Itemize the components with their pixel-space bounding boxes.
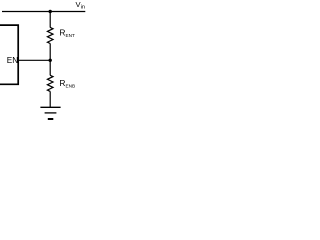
resistor RENB [47,75,53,91]
ground bar 1 [40,106,60,108]
svg-text:RENT: RENT [59,28,75,39]
svg-text:Vin: Vin [76,0,85,11]
wire RENB to ground [49,91,51,107]
wire middle junction down [49,60,51,75]
node junction at Vin rail [49,10,52,13]
IC body outline (partial) [0,25,18,84]
wire RENT to middle junction [49,44,51,61]
resistor RENT [47,27,53,43]
node middle junction [49,59,52,62]
ground bar 3 [48,118,54,120]
wire EN pin to junction [18,59,50,61]
ground bar 2 [45,112,57,114]
svg-text:RENB: RENB [59,78,75,89]
wire from Vin junction down [49,12,51,28]
wire top Vin rail [2,11,85,13]
svg-text:EN: EN [7,56,18,65]
